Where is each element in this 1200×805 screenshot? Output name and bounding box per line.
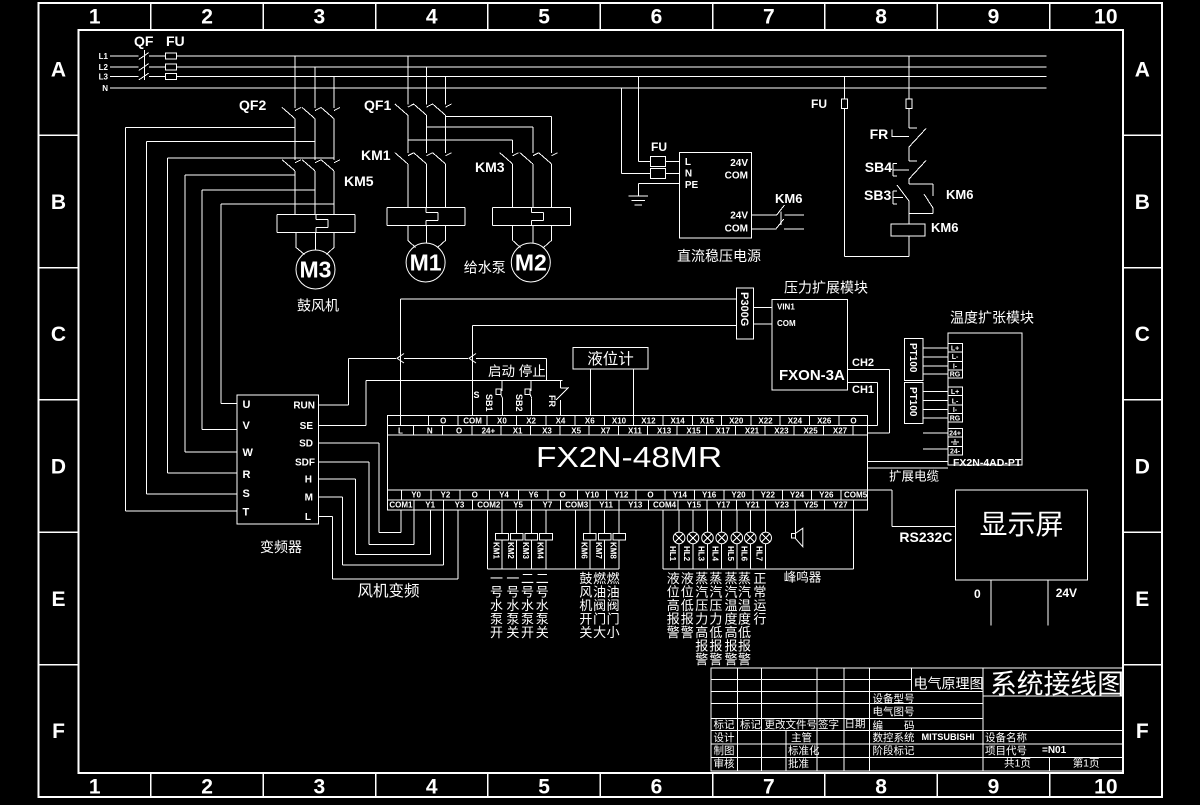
svg-text:标准化: 标准化 (788, 744, 820, 757)
svg-text:L2: L2 (99, 63, 109, 72)
wire L3 to fuse (637, 77, 639, 162)
svg-text:压力扩展模块: 压力扩展模块 (784, 280, 868, 296)
svg-text:COM3: COM3 (565, 501, 589, 510)
svg-text:Y22: Y22 (761, 491, 776, 500)
svg-text:KM1: KM1 (492, 542, 501, 559)
wire COM2 drop (486, 510, 488, 569)
svg-text:RUN: RUN (293, 401, 315, 412)
svg-text:HL6: HL6 (739, 546, 748, 562)
svg-text:X25: X25 (803, 426, 818, 435)
svg-text:X11: X11 (628, 426, 642, 435)
svg-text:FR: FR (547, 395, 557, 407)
svg-text:X16: X16 (700, 416, 715, 425)
lamp HL3 on output (702, 510, 714, 569)
svg-text:签字: 签字 (818, 718, 839, 731)
svg-text:警: 警 (724, 652, 737, 667)
svg-text:X1: X1 (513, 426, 523, 435)
svg-text:X4: X4 (556, 416, 566, 425)
svg-text:CH2: CH2 (852, 357, 874, 369)
svg-text:Y20: Y20 (731, 491, 746, 500)
svg-text:COM4: COM4 (653, 501, 677, 510)
svg-text:M3: M3 (300, 257, 332, 283)
title block verticals (736, 668, 738, 771)
power wires 24V to module (923, 432, 948, 434)
svg-text:Y11: Y11 (599, 501, 613, 510)
display power legs (990, 580, 992, 626)
svg-text:COM: COM (725, 171, 748, 182)
svg-text:VIN1: VIN1 (777, 303, 795, 312)
coil KM6 (891, 224, 925, 236)
wire P300G COM to PLC COM terminal (472, 325, 736, 327)
svg-text:2: 2 (201, 6, 213, 29)
coil KM2 on Y5 (516, 510, 518, 534)
svg-text:5: 5 (538, 6, 550, 29)
svg-text:N: N (102, 84, 108, 93)
svg-text:X10: X10 (612, 416, 627, 425)
svg-text:10: 10 (1094, 776, 1117, 799)
bus L1 (110, 55, 139, 57)
pushbutton SB2 stop to X2 (530, 381, 532, 391)
pressure transmitter P300G (737, 288, 754, 339)
pushbutton SB3 (NO) (897, 185, 909, 201)
svg-text:X12: X12 (641, 416, 656, 425)
svg-text:Y17: Y17 (716, 501, 731, 510)
svg-text:设备型号: 设备型号 (873, 692, 915, 705)
title block outline (711, 668, 1123, 771)
fuse FU on L2 (165, 64, 176, 70)
overload relay FR3 for M3 (277, 214, 355, 216)
svg-text:Y7: Y7 (543, 501, 553, 510)
display 显示屏 box (956, 490, 1088, 580)
svg-text:项目代号: 项目代号 (985, 745, 1027, 757)
svg-text:FXON-3A: FXON-3A (779, 367, 845, 384)
coil KM8 on Y12 (618, 510, 620, 534)
svg-text:数控系统: 数控系统 (873, 731, 915, 744)
svg-text:RS232C: RS232C (899, 529, 952, 545)
svg-text:警: 警 (695, 652, 708, 667)
svg-text:HL5: HL5 (726, 546, 735, 562)
svg-text:行: 行 (753, 612, 766, 627)
svg-text:KM6: KM6 (931, 220, 958, 235)
svg-text:Y26: Y26 (819, 491, 834, 500)
wire PE to ground (638, 183, 679, 185)
fuse FU control left (842, 99, 848, 108)
wire COM out with KM6 contact (752, 228, 776, 230)
svg-text:COM: COM (725, 224, 748, 235)
svg-text:小: 小 (607, 625, 620, 640)
svg-text:3: 3 (314, 776, 326, 799)
wire QF2 pole3 to VFD R (168, 157, 334, 159)
svg-text:L1: L1 (99, 52, 109, 61)
motor M1 (406, 243, 445, 282)
svg-text:T: T (243, 507, 250, 519)
svg-text:KM5: KM5 (344, 173, 374, 189)
svg-text:审核: 审核 (714, 757, 735, 770)
svg-text:X0: X0 (497, 416, 507, 425)
svg-text:电气图号: 电气图号 (873, 705, 915, 718)
svg-text:X5: X5 (571, 426, 581, 435)
buzzer on Y24 (795, 510, 797, 534)
breaker QF2 poles (294, 56, 296, 108)
wire L3 drop to control branch (844, 77, 846, 100)
svg-text:24V: 24V (730, 211, 748, 222)
svg-text:HL2: HL2 (682, 546, 691, 562)
terminal cells group1 (948, 344, 963, 353)
svg-text:启动 停止: 启动 停止 (488, 363, 546, 379)
svg-text:N: N (685, 169, 692, 180)
svg-text:警: 警 (738, 652, 751, 667)
svg-text:HL3: HL3 (697, 546, 706, 562)
motor M2 (511, 243, 550, 282)
bus N (110, 87, 1047, 89)
svg-text:PE: PE (685, 180, 699, 191)
coil KM1 on Y4 (501, 510, 503, 534)
svg-text:6: 6 (651, 776, 663, 799)
fuse FU L (650, 157, 665, 167)
svg-text:Y25: Y25 (804, 501, 819, 510)
wire N to fuse (621, 88, 623, 174)
svg-text:24-: 24- (950, 448, 961, 455)
svg-text:L: L (398, 426, 403, 435)
svg-text:F: F (1136, 720, 1149, 743)
svg-text:大: 大 (593, 625, 606, 640)
svg-text:C: C (51, 323, 66, 346)
svg-text:8: 8 (875, 6, 887, 29)
svg-text:设计: 设计 (714, 731, 735, 744)
svg-text:L+: L+ (951, 345, 959, 352)
svg-text:X20: X20 (729, 416, 744, 425)
svg-text:QF: QF (134, 33, 154, 49)
svg-text:FX2N-4AD-PT: FX2N-4AD-PT (953, 457, 1022, 469)
svg-text:O: O (472, 491, 478, 500)
svg-text:X27: X27 (833, 426, 848, 435)
svg-text:X21: X21 (745, 426, 760, 435)
svg-text:R: R (243, 469, 251, 481)
svg-text:L+: L+ (951, 389, 959, 396)
svg-text:1: 1 (89, 776, 101, 799)
svg-text:L: L (685, 157, 691, 168)
contact KM6 (NO) parallel branch (909, 183, 933, 185)
svg-text:O: O (647, 491, 653, 500)
svg-text:KM3: KM3 (475, 159, 505, 175)
svg-text:警: 警 (681, 625, 694, 640)
svg-text:批准: 批准 (788, 757, 809, 770)
svg-text:8: 8 (875, 776, 887, 799)
svg-text:O: O (850, 416, 856, 425)
svg-text:4: 4 (426, 776, 438, 799)
svg-text:Y0: Y0 (411, 491, 421, 500)
svg-text:X15: X15 (686, 426, 701, 435)
svg-text:3: 3 (314, 6, 326, 29)
wire SE to switch rail (319, 425, 366, 427)
svg-text:SB4: SB4 (865, 159, 892, 175)
svg-text:D: D (51, 455, 66, 478)
svg-text:4: 4 (426, 6, 438, 29)
terminal cells power (948, 429, 963, 438)
svg-text:Y1: Y1 (425, 501, 435, 510)
svg-text:KM6: KM6 (946, 187, 973, 202)
svg-text:主管: 主管 (791, 731, 812, 744)
svg-text:D: D (1135, 455, 1150, 478)
QF linkage (144, 50, 146, 80)
pushbutton SB1 start to X0 (501, 381, 503, 391)
svg-text:RG: RG (950, 371, 961, 378)
svg-text:1: 1 (89, 6, 101, 29)
svg-text:X3: X3 (542, 426, 552, 435)
svg-text:编 码: 编 码 (873, 719, 915, 732)
wire 24V out with KM6 contact (752, 214, 777, 216)
sensor PT100 no2 (905, 383, 924, 424)
svg-text:COM: COM (463, 416, 482, 425)
svg-text:L3: L3 (99, 73, 109, 82)
svg-text:E: E (51, 588, 65, 611)
svg-text:24V: 24V (730, 158, 748, 169)
row tick marks left/right bands (39, 134, 79, 136)
wire coil to L3 branch (908, 236, 910, 257)
svg-text:Y6: Y6 (529, 491, 539, 500)
wire KM5 out1 to VFD W (185, 174, 295, 176)
title block horizontals (711, 679, 912, 681)
svg-text:M1: M1 (410, 250, 442, 276)
svg-text:标记: 标记 (714, 719, 735, 731)
svg-text:制图: 制图 (714, 744, 735, 757)
svg-text:变频器: 变频器 (260, 539, 302, 555)
overload relay for M1 (387, 207, 465, 209)
lamp HL1 on output (673, 510, 685, 569)
lamp HL5 on output (731, 510, 743, 569)
svg-text:直流稳压电源: 直流稳压电源 (677, 248, 761, 264)
wire CH1 to PLC (848, 382, 878, 384)
svg-text:FU: FU (651, 140, 667, 154)
svg-text:I-: I- (953, 363, 958, 370)
wire SDF to Y0 (319, 461, 370, 463)
svg-text:峰鸣器: 峰鸣器 (784, 570, 822, 585)
svg-text:KM2: KM2 (506, 542, 515, 559)
wire H to Y1 (319, 478, 356, 480)
svg-text:COM2: COM2 (477, 501, 501, 510)
svg-text:KM1: KM1 (361, 147, 391, 163)
wire SD to COM1 (319, 442, 380, 444)
svg-text:KM6: KM6 (775, 191, 802, 206)
svg-text:COM1: COM1 (389, 501, 413, 510)
wire COM5 riser (853, 510, 855, 569)
PLC output terminal row dividers (401, 490, 403, 500)
common bus group1-2 (487, 568, 619, 570)
svg-text:10: 10 (1094, 6, 1117, 29)
column tick marks top/bottom bands (150, 3, 152, 30)
KM6 contact linkage (780, 212, 782, 226)
fuse FU control right (906, 99, 912, 108)
motor M2 leads (512, 225, 514, 240)
svg-text:I-: I- (953, 407, 958, 414)
wire CH2 to PLC (848, 369, 890, 371)
svg-text:QF1: QF1 (364, 97, 391, 113)
svg-text:V: V (243, 420, 251, 432)
DC supply box 直流稳压电源 (680, 153, 752, 239)
svg-text:X14: X14 (670, 416, 685, 425)
svg-text:Y10: Y10 (585, 491, 600, 500)
fuse FU on L3 (165, 74, 176, 80)
fuse FU N (650, 169, 665, 179)
contactor KM3 contacts (512, 140, 514, 153)
svg-text:Y24: Y24 (790, 491, 805, 500)
coil KM4 on Y7 (545, 510, 547, 534)
svg-text:开: 开 (521, 625, 534, 640)
svg-text:24+: 24+ (482, 426, 496, 435)
svg-text:开: 开 (490, 625, 503, 640)
wires QF1 to KM3 branch (408, 139, 513, 141)
svg-text:电气原理图: 电气原理图 (914, 676, 984, 692)
svg-text:HL4: HL4 (711, 546, 720, 562)
svg-text:标记: 标记 (740, 719, 761, 731)
svg-text:设备名称: 设备名称 (985, 731, 1027, 744)
svg-text:警: 警 (709, 652, 722, 667)
svg-text:SB2: SB2 (514, 394, 524, 412)
lamp HL6 on output (745, 510, 757, 569)
wire QF2 pole2 to VFD S (147, 141, 315, 143)
svg-text:KM6: KM6 (579, 542, 588, 559)
lamp HL2 on output (687, 510, 699, 569)
wire M to Y2 (319, 496, 343, 498)
svg-text:Y2: Y2 (441, 491, 451, 500)
svg-text:E: E (1135, 588, 1149, 611)
svg-text:Y21: Y21 (745, 501, 760, 510)
svg-text:FU: FU (811, 97, 827, 111)
svg-text:KM8: KM8 (609, 542, 618, 559)
bus L3 (110, 76, 139, 78)
lamp HL7 on output (760, 510, 772, 569)
svg-text:N: N (427, 426, 433, 435)
PLC input terminal row dividers (428, 416, 430, 426)
svg-text:日期: 日期 (845, 718, 866, 730)
wire KM5 out2 to VFD V (202, 189, 315, 191)
ground symbol (629, 195, 649, 197)
svg-text:FR: FR (870, 126, 889, 142)
svg-text:C: C (1135, 323, 1150, 346)
svg-text:MITSUBISHI: MITSUBISHI (922, 732, 975, 743)
expansion cable wires (868, 461, 948, 463)
svg-text:O: O (456, 426, 462, 435)
svg-text:6: 6 (651, 6, 663, 29)
svg-text:FX2N-48MR: FX2N-48MR (536, 442, 722, 474)
svg-text:Y14: Y14 (673, 491, 688, 500)
wire QF2 pole1 to VFD T (126, 126, 295, 128)
wires P300G to FXON-3A (754, 307, 772, 309)
temperature module FX2N-4AD-PT box (948, 333, 1022, 465)
svg-text:7: 7 (763, 776, 775, 799)
svg-text:24V: 24V (1056, 586, 1077, 600)
svg-text:阶段标记: 阶段标记 (873, 744, 915, 757)
inverter 变频器 box (237, 395, 318, 524)
svg-text:CH1: CH1 (852, 384, 874, 396)
motor M1 leads (407, 225, 409, 240)
svg-text:共1页: 共1页 (1004, 758, 1031, 770)
svg-text:液位计: 液位计 (587, 350, 634, 368)
svg-text:2: 2 (201, 776, 213, 799)
svg-text:RG: RG (950, 415, 961, 422)
svg-text:U: U (243, 399, 251, 411)
wire L1 drop to control branch (908, 56, 910, 99)
thermal contact FR (NC) (909, 127, 917, 129)
svg-text:5: 5 (538, 776, 550, 799)
fuse FU on L1 (165, 53, 176, 59)
svg-text:Y5: Y5 (513, 501, 523, 510)
svg-text:COM: COM (777, 319, 796, 328)
svg-text:B: B (51, 191, 66, 214)
svg-text:L-: L- (952, 354, 959, 361)
svg-text:更改文件号: 更改文件号 (765, 718, 818, 731)
svg-text:给水泵: 给水泵 (464, 260, 506, 276)
svg-text:P300G: P300G (738, 292, 750, 326)
svg-text:关: 关 (579, 625, 592, 640)
svg-text:X23: X23 (774, 426, 789, 435)
svg-text:Y27: Y27 (833, 501, 848, 510)
svg-text:A: A (51, 59, 66, 82)
lamp HL4 on output (716, 510, 728, 569)
svg-text:KM7: KM7 (594, 542, 603, 559)
svg-text:警: 警 (667, 625, 680, 640)
coil KM6b on Y10 (589, 510, 591, 534)
svg-text:X13: X13 (657, 426, 672, 435)
pushbutton SB4 (NC) (909, 160, 917, 162)
svg-text:X6: X6 (585, 416, 595, 425)
svg-text:FU: FU (166, 33, 185, 49)
PLC FX2N-48MR body (388, 416, 868, 510)
svg-text:X26: X26 (817, 416, 832, 425)
svg-text:M2: M2 (515, 250, 547, 276)
coil KM3b on Y6 (530, 510, 532, 534)
svg-text:9: 9 (988, 776, 1000, 799)
contactor KM5 contacts (295, 160, 301, 163)
svg-text:风机变频: 风机变频 (358, 582, 420, 600)
svg-text:SB1: SB1 (484, 394, 494, 412)
svg-text:X22: X22 (758, 416, 773, 425)
svg-text:S: S (243, 488, 250, 500)
wire PLC L terminal to P300G (399, 299, 401, 426)
svg-text:Y23: Y23 (775, 501, 790, 510)
overload relay for M2 (492, 207, 570, 209)
svg-text:HL7: HL7 (755, 546, 764, 562)
terminal cells group2 (948, 387, 963, 396)
svg-text:F: F (52, 720, 65, 743)
svg-text:X17: X17 (716, 426, 731, 435)
svg-text:温度扩张模块: 温度扩张模块 (950, 310, 1034, 326)
svg-text:第1页: 第1页 (1073, 757, 1100, 770)
level gauge 液位计 box (573, 348, 648, 369)
svg-text:KM3: KM3 (521, 542, 530, 559)
pressure module FXON-3A box (772, 300, 848, 391)
wires PT100 no1 to module (923, 347, 948, 349)
disconnect QF blades (139, 53, 149, 60)
contactor KM1 contacts (408, 153, 414, 156)
svg-text:SD: SD (299, 439, 313, 450)
svg-text:24+: 24+ (949, 430, 961, 437)
thermal contact FR to X4 (560, 381, 562, 389)
svg-text:W: W (243, 447, 254, 459)
svg-text:O: O (559, 491, 565, 500)
svg-text:B: B (1135, 191, 1150, 214)
common bus group3 (663, 568, 853, 570)
svg-text:M: M (305, 493, 313, 504)
svg-text:Y13: Y13 (628, 501, 643, 510)
svg-text:显示屏: 显示屏 (979, 509, 1063, 540)
motor M3 leads (295, 232, 297, 247)
svg-text:HL1: HL1 (668, 546, 677, 562)
svg-text:X7: X7 (601, 426, 611, 435)
svg-text:=N01: =N01 (1042, 745, 1067, 756)
wire fuses to supply (665, 161, 679, 163)
wire COM3 drop (574, 510, 576, 569)
